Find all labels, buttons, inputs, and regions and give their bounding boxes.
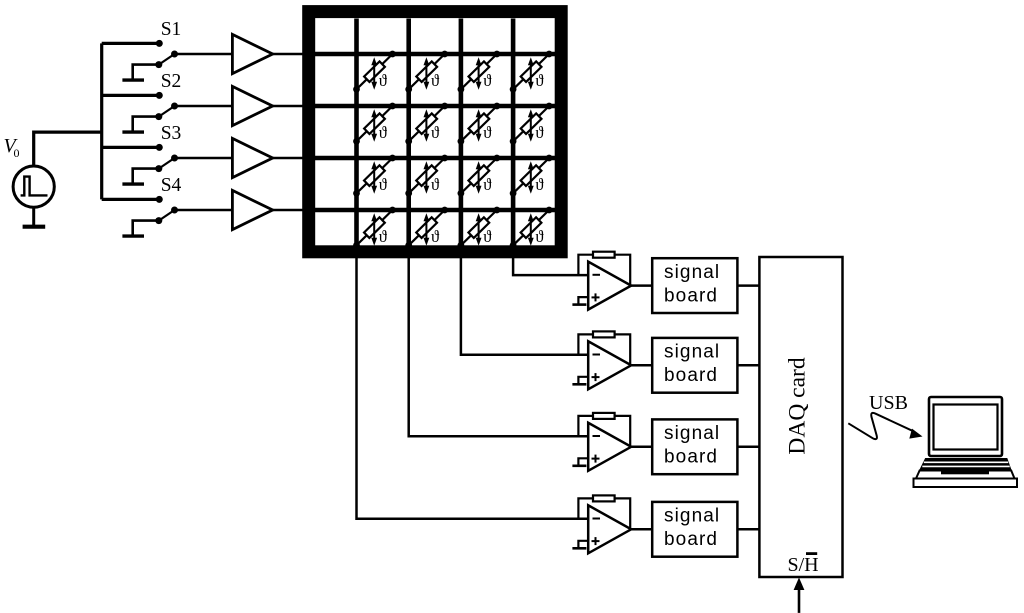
feedback resistor Rf4 — [593, 495, 615, 501]
svg-text:signal: signal — [664, 342, 720, 363]
wire buffer A4 to matrix — [273, 209, 309, 212]
thermistor R32 — [405, 155, 448, 197]
ground (below V0) — [23, 207, 46, 227]
wire op-amp U2 output — [630, 364, 652, 367]
thermistor R43 — [458, 207, 501, 249]
switch S3 — [155, 144, 178, 172]
svg-text:ϑ: ϑ — [535, 123, 544, 142]
wire column 2 line — [406, 19, 411, 252]
wire op-amp U1 plus input — [578, 297, 588, 305]
wire column 1 line — [354, 19, 359, 252]
svg-text:ϑ: ϑ — [483, 123, 492, 142]
wire switch S3 to buffer — [175, 157, 233, 160]
wire switch S1 ground leg — [133, 65, 159, 81]
wire op-amp U2 plus input — [578, 377, 588, 385]
pulse source V0 — [13, 166, 54, 207]
wire feedback U2 — [578, 334, 630, 365]
wire column 3 line — [459, 19, 464, 252]
wire column 4 line — [511, 19, 516, 252]
op-amp U1 — [588, 262, 631, 310]
thermistor R22 — [405, 103, 448, 145]
S/H input arrow — [794, 578, 805, 613]
wire feedback U1 — [578, 255, 630, 286]
wire buffer A3 to matrix — [273, 157, 309, 160]
thermistor R21 — [353, 103, 396, 145]
svg-text:signal: signal — [664, 423, 720, 444]
thermistor R41 — [353, 207, 396, 249]
svg-text:ϑ: ϑ — [535, 175, 544, 194]
svg-text:ϑ: ϑ — [535, 71, 544, 90]
wire feedback U4 — [578, 498, 630, 529]
wire signal board 1 to DAQ — [737, 284, 759, 287]
svg-text:ϑ: ϑ — [483, 175, 492, 194]
op-amp U4 — [588, 505, 631, 553]
wire signal board 4 to DAQ — [737, 528, 759, 531]
wire switch S2 ground leg — [133, 117, 159, 133]
DAQ card — [759, 257, 842, 577]
thermistor R14 — [510, 51, 553, 93]
svg-text:S/H: S/H — [788, 554, 819, 576]
svg-text:ϑ: ϑ — [431, 71, 440, 90]
label S3 — [161, 123, 182, 144]
wire bus to switch S3 — [102, 146, 160, 149]
wire signal board 3 to DAQ — [737, 446, 759, 449]
switch S4 — [155, 196, 178, 224]
feedback resistor Rf1 — [593, 252, 615, 258]
wire op-amp U4 plus input — [578, 541, 588, 549]
svg-text:signal: signal — [664, 506, 720, 527]
signal board 1 — [652, 258, 737, 313]
svg-text:board: board — [664, 286, 718, 307]
label S1 — [161, 19, 182, 40]
wire bus vertical — [100, 43, 103, 199]
thermistor R24 — [510, 103, 553, 145]
wire switch S4 ground leg — [133, 221, 159, 237]
wire signal board 2 to DAQ — [737, 364, 759, 367]
signal board 4 — [652, 502, 737, 557]
label USB — [869, 392, 908, 414]
svg-text:board: board — [664, 365, 718, 386]
svg-text:USB: USB — [869, 392, 908, 414]
wire buffer A1 to matrix — [273, 53, 309, 56]
ground (op-amp U3) — [572, 464, 586, 467]
svg-text:S4: S4 — [161, 175, 182, 196]
buffer amp A1 — [232, 34, 272, 73]
svg-text:DAQ card: DAQ card — [785, 357, 811, 454]
svg-text:board: board — [664, 529, 718, 550]
svg-text:ϑ: ϑ — [379, 175, 388, 194]
thermistor R23 — [458, 103, 501, 145]
switch S1 — [155, 40, 178, 68]
buffer amp A4 — [232, 190, 272, 229]
wire bus to switch S2 — [102, 94, 160, 97]
wire column 4 to op-amp U1 — [513, 252, 588, 275]
svg-text:ϑ: ϑ — [483, 71, 492, 90]
wire row 4 line — [303, 208, 556, 213]
signal board 2 — [652, 338, 737, 393]
laptop — [914, 397, 1018, 487]
thermistor R42 — [405, 207, 448, 249]
USB cable arrow — [848, 413, 922, 439]
switch S2 — [155, 92, 178, 120]
svg-text:ϑ: ϑ — [431, 123, 440, 142]
svg-text:0: 0 — [14, 146, 20, 160]
ground (switch S2) — [122, 130, 144, 133]
svg-text:signal: signal — [664, 262, 720, 283]
op-amp U3 — [588, 423, 631, 471]
thermistor R33 — [458, 155, 501, 197]
wire switch S2 to buffer — [175, 105, 233, 108]
label S4 — [161, 175, 182, 196]
wire row 1 line — [303, 52, 556, 57]
svg-text:ϑ: ϑ — [483, 227, 492, 246]
svg-text:ϑ: ϑ — [379, 71, 388, 90]
svg-text:ϑ: ϑ — [379, 227, 388, 246]
svg-text:board: board — [664, 447, 718, 468]
svg-text:ϑ: ϑ — [379, 123, 388, 142]
ground (op-amp U1) — [572, 303, 586, 306]
wire column 1 to op-amp U4 — [357, 252, 589, 519]
label S2 — [161, 71, 182, 92]
ground (op-amp U4) — [572, 547, 586, 550]
wire switch S4 to buffer — [175, 209, 233, 212]
svg-text:ϑ: ϑ — [431, 227, 440, 246]
wire op-amp U3 output — [630, 446, 652, 449]
ground (op-amp U2) — [572, 383, 586, 386]
buffer amp A3 — [232, 138, 272, 177]
op-amp U2 — [588, 341, 631, 389]
sensor matrix frame — [309, 12, 562, 252]
feedback resistor Rf2 — [593, 331, 615, 337]
feedback resistor Rf3 — [593, 413, 615, 419]
thermistor R31 — [353, 155, 396, 197]
wire V0 to bus — [34, 132, 102, 166]
wire column 3 to op-amp U2 — [461, 252, 588, 355]
thermistor R12 — [405, 51, 448, 93]
svg-text:ϑ: ϑ — [431, 175, 440, 194]
wire row 2 line — [303, 104, 556, 109]
wire op-amp U3 plus input — [578, 458, 588, 466]
ground (switch S1) — [122, 78, 144, 81]
ground (switch S3) — [122, 182, 144, 185]
wire feedback U3 — [578, 416, 630, 447]
svg-text:S2: S2 — [161, 71, 182, 92]
thermistor R13 — [458, 51, 501, 93]
wire switch S1 to buffer — [175, 53, 233, 56]
signal board 3 — [652, 419, 737, 474]
label S/H — [788, 554, 819, 576]
wire op-amp U1 output — [630, 284, 652, 287]
thermistor R34 — [510, 155, 553, 197]
buffer amp A2 — [232, 86, 272, 125]
wire switch S3 ground leg — [133, 169, 159, 185]
svg-text:S1: S1 — [161, 19, 182, 40]
wire column 2 to op-amp U3 — [409, 252, 589, 436]
wire bus to switch S4 — [102, 198, 160, 201]
svg-text:S3: S3 — [161, 123, 182, 144]
wire op-amp U4 output — [630, 528, 652, 531]
thermistor R44 — [510, 207, 553, 249]
wire bus to switch S1 — [102, 42, 160, 45]
svg-text:ϑ: ϑ — [535, 227, 544, 246]
ground (switch S4) — [122, 234, 144, 237]
label V0 — [4, 135, 20, 160]
wire buffer A2 to matrix — [273, 105, 309, 108]
thermistor R11 — [353, 51, 396, 93]
wire row 3 line — [303, 156, 556, 161]
